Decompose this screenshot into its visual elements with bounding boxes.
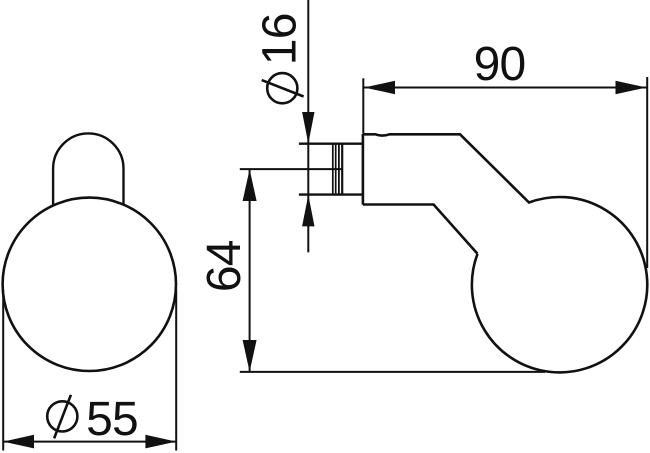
dimension 64: bottom extension line [240,371,545,373]
dimension Ø16: diameter symbol slash [262,80,304,96]
svg-text:16: 16 [254,13,307,65]
svg-text:90: 90 [474,38,526,91]
dimension Ø16: vertical dimension line with tails [307,0,309,252]
dimension Ø55: right extension line [175,290,177,451]
dimension Ø55: left arrowhead [3,435,34,449]
dimension 90: left arrowhead [364,81,395,94]
svg-text:55: 55 [86,393,138,446]
front view: neck/collar dome outline [53,133,123,205]
dimension 64: bottom arrowhead pointing down [243,340,257,372]
dimension 90: dimension line [363,87,647,89]
front view: knob head circle (Ø55) [3,198,176,371]
dimension Ø16: lower arrowhead pointing up [302,195,314,227]
side view: ferrule line 4 [341,144,343,193]
side view: ferrule line 1 [332,144,334,193]
side view: spindle stem top line (also Ø16 extension) [299,142,363,144]
side view: centerline (also 64 top extension line) [240,168,343,170]
svg-text:64: 64 [198,240,251,292]
side view: spindle stem bottom line (also Ø16 extension) [299,193,363,195]
dimension Ø55: diameter symbol slash [54,395,71,439]
side view: knob top outline with notch, taper and head arc [363,134,647,372]
side view: knob bottom outline and taper [363,205,478,254]
side view: ferrule line 2 [335,144,337,193]
side view: knob mounting face [362,134,365,205]
dimension Ø55: diameter symbol circle [47,401,77,431]
dimension 90: right extension line [646,77,648,268]
dimension Ø55: dimension line [3,441,176,443]
dimension 90: right arrowhead [616,81,647,94]
dimension Ø55: left extension line [2,290,4,451]
dimension 64: vertical dimension line [249,169,251,372]
dimension Ø16: diameter symbol circle [267,73,297,103]
dimension Ø16: upper arrowhead pointing down [302,112,314,144]
dimension Ø55: right arrowhead [145,435,176,449]
side view: ferrule line 3 [338,144,340,193]
dimension 90: left extension line [362,78,364,133]
dimension 64: top arrowhead pointing up [243,169,257,201]
